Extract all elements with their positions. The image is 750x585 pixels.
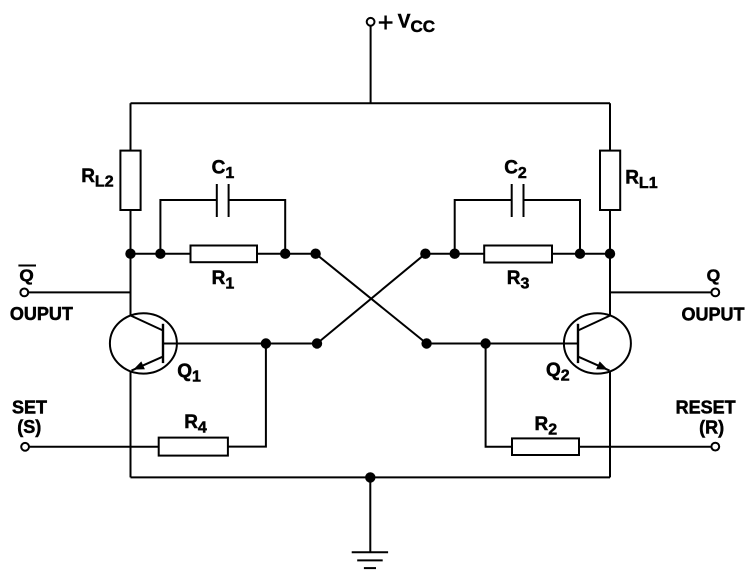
terminal Vcc (367, 18, 375, 26)
wire left collector node line (131, 253, 316, 255)
wire R2 from base node (486, 344, 512, 447)
svg-text:Q: Q (707, 266, 721, 285)
node dot ground on bottom rail (365, 472, 375, 482)
node dot right diagonal to collector line (420, 249, 430, 259)
wire Q output lead (610, 291, 712, 293)
node dot right rail / collector line (605, 249, 615, 259)
svg-text:OUPUT: OUPUT (10, 304, 73, 324)
svg-text:OUPUT: OUPUT (682, 305, 745, 325)
terminal Q (711, 289, 719, 297)
wire right rail lower (emitter to bottom rail) (609, 372, 611, 478)
node dot Q2 base / diagonal (421, 338, 431, 348)
node dot C2 left (450, 249, 460, 259)
wire right collector node line (425, 253, 610, 255)
node dot C2 right (575, 249, 585, 259)
wire right rail upper (609, 103, 611, 151)
wire left rail lower (emitter to bottom rail) (130, 372, 132, 478)
plus sign of +Vcc (379, 16, 393, 30)
resistor R1 (191, 246, 258, 263)
wire Q1 base line (163, 343, 317, 345)
node dot Q1 base / R4 (261, 338, 271, 348)
node dot Q2 base / R2 (480, 338, 490, 348)
wire Qbar output lead (28, 291, 131, 293)
transistor Q1 (110, 313, 177, 373)
wire R4 to base node (228, 344, 266, 447)
node dot C1 right (280, 249, 290, 259)
wire SET lead (29, 446, 159, 448)
node dot left rail / collector line (125, 249, 135, 259)
wire Vcc stem (370, 25, 372, 103)
overbar of Qbar (18, 265, 36, 267)
terminal SET (21, 443, 29, 451)
svg-text:RESET: RESET (676, 397, 736, 417)
resistor RL2 (120, 151, 140, 210)
transistor Q2 (564, 313, 631, 373)
terminal Qbar (20, 289, 28, 297)
wire RESET lead (579, 446, 712, 448)
node dot left collector to diagonal (310, 249, 320, 259)
resistor RL1 (600, 151, 620, 210)
resistor R3 (484, 246, 552, 263)
svg-text:(S): (S) (17, 417, 41, 437)
wire top rail (131, 102, 611, 104)
wire left rail mid (130, 210, 132, 315)
node dot Q1 base / diagonal (312, 338, 322, 348)
svg-text:Q: Q (19, 266, 33, 285)
svg-text:(R): (R) (699, 418, 724, 438)
wire left rail upper (130, 103, 132, 151)
resistor R4 (159, 438, 228, 456)
node dot C1 left (155, 249, 165, 259)
capacitor C1 (160, 184, 285, 254)
resistor R2 (512, 438, 579, 455)
capacitor C2 (455, 184, 580, 254)
wire bottom rail (131, 476, 611, 478)
wire Q2 base line (427, 343, 578, 345)
terminal RESET (711, 443, 719, 451)
wire right rail mid (609, 210, 611, 315)
wire cross-coupling diagonal right-top to left-base (317, 254, 425, 344)
ground (352, 552, 388, 568)
wire ground stem (369, 477, 371, 552)
svg-text:SET: SET (12, 397, 47, 417)
wire cross-coupling diagonal left-top to right-base (316, 254, 427, 344)
